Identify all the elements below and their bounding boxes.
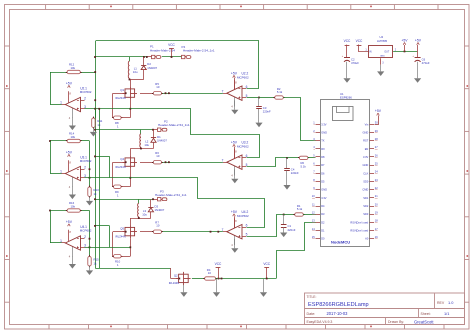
inductor L2 10u	[140, 130, 142, 134]
pin 26 3.3V	[370, 156, 375, 158]
svg-text:RSV(Don't use): RSV(Don't use)	[350, 220, 368, 224]
svg-text:GND: GND	[363, 130, 369, 134]
svg-text:470uF: 470uF	[351, 61, 359, 65]
svg-text:220nF: 220nF	[263, 110, 271, 114]
svg-text:10k: 10k	[71, 204, 76, 208]
ground below C6	[417, 62, 419, 78]
svg-text:220nF: 220nF	[291, 171, 299, 175]
svg-text:+5V: +5V	[231, 210, 238, 214]
ground below R11	[93, 127, 95, 131]
pin 2 GND	[316, 132, 321, 134]
op-amp U3.1 MCP602	[68, 160, 70, 171]
svg-text:GreatScott: GreatScott	[414, 319, 434, 324]
svg-text:+5V: +5V	[375, 109, 382, 113]
svg-text:6: 6	[246, 154, 248, 158]
svg-text:6: 6	[246, 85, 248, 89]
svg-text:1: 1	[60, 239, 62, 243]
svg-text:10: 10	[156, 85, 160, 89]
wire R4 to VCC and NodeMCU D2	[216, 278, 277, 280]
diode D1 1N4007	[153, 130, 155, 138]
title block	[305, 293, 465, 325]
pin 10 3.3V	[316, 197, 321, 199]
capacitor C4 220nF	[286, 158, 288, 168]
wire source node channel 2	[130, 169, 132, 187]
svg-text:1/1: 1/1	[444, 311, 449, 316]
svg-text:CMD: CMD	[362, 188, 368, 192]
svg-text:CLK: CLK	[363, 171, 368, 175]
diode D3 1N4007	[150, 199, 152, 207]
pin 19 SD3	[370, 214, 375, 216]
pin 12 D3	[316, 214, 321, 216]
resistor R0 5.1k	[287, 157, 299, 159]
svg-text:3.3V: 3.3V	[321, 122, 327, 126]
svg-text:RSV(Don't use): RSV(Don't use)	[350, 229, 368, 233]
svg-text:10u: 10u	[142, 212, 147, 216]
svg-text:GND: GND	[321, 130, 327, 134]
resistor R12 10k	[67, 70, 80, 73]
svg-text:D5: D5	[321, 179, 325, 183]
svg-text:7: 7	[222, 89, 224, 93]
resistor R7 10	[153, 230, 161, 233]
svg-text:IN: IN	[369, 51, 372, 53]
svg-text:VCC: VCC	[263, 262, 270, 266]
svg-text:GND: GND	[380, 56, 385, 58]
wire source node channel 3	[130, 238, 132, 256]
pin 23 SD0	[370, 181, 375, 183]
pin 5 D8	[316, 156, 321, 158]
ground below R15	[89, 266, 91, 271]
op-amp U4.1 MCP602	[68, 230, 70, 241]
svg-text:1N4007: 1N4007	[147, 66, 157, 70]
wire gate to R10 channel 3	[113, 231, 125, 233]
svg-text:10: 10	[156, 154, 160, 158]
ground below U4	[380, 65, 382, 72]
svg-text:D3: D3	[321, 212, 325, 216]
wire channel 1 feedback loop	[96, 41, 259, 89]
pin 18 RSV(Don't use)	[370, 222, 375, 224]
svg-text:5.1k: 5.1k	[301, 165, 307, 169]
svg-text:TITLE:: TITLE:	[307, 295, 317, 299]
wire drain node channel 1	[130, 79, 143, 81]
svg-text:2: 2	[84, 165, 86, 169]
pin 29 GND	[370, 132, 375, 134]
svg-text:IRLZ44N: IRLZ44N	[169, 281, 180, 285]
svg-text:MCP602: MCP602	[237, 145, 249, 149]
svg-text:GND: GND	[321, 188, 327, 192]
transistor Q1 IRLZ44N	[125, 89, 135, 97]
pin 13 D2	[316, 222, 321, 224]
svg-text:D2: D2	[321, 220, 325, 224]
module U1 ESP8266 NodeMCU	[321, 100, 370, 247]
wire channel 1 output header net	[95, 56, 147, 58]
ground below U4.2	[234, 239, 236, 248]
voltage regulator U4 LM7805	[369, 46, 393, 58]
header P1 Header-Male-2.54	[152, 55, 155, 58]
svg-text:Header-Male-2.54_1x1: Header-Male-2.54_1x1	[158, 123, 190, 127]
svg-text:MCP602: MCP602	[80, 229, 92, 233]
header P2 Header-Male-2.54_1x1	[158, 128, 161, 131]
ground below U3.2	[234, 169, 236, 178]
wire feedback bus channel 3	[89, 211, 91, 257]
svg-text:Q4: Q4	[120, 157, 124, 161]
svg-text:VCC: VCC	[356, 39, 363, 43]
svg-text:3: 3	[84, 244, 86, 248]
ground below U2.2	[234, 100, 236, 109]
svg-text:ESP8266: ESP8266	[340, 96, 352, 100]
wire drain node channel 3	[130, 218, 151, 220]
svg-text:1N4007: 1N4007	[157, 139, 167, 143]
ground below U2.1	[72, 118, 74, 126]
svg-text:1N4007: 1N4007	[155, 208, 165, 212]
svg-text:MCP602: MCP602	[80, 159, 92, 163]
resistor R1 5.1k	[284, 214, 295, 216]
svg-text:10: 10	[208, 271, 212, 275]
svg-text:7: 7	[222, 228, 224, 232]
transistor Q5 IRLZ44N	[125, 227, 135, 235]
svg-text:5: 5	[246, 232, 248, 236]
pin 30 Vin	[370, 124, 375, 126]
ground below U3.1	[72, 187, 74, 195]
pin 28 RST	[370, 140, 375, 142]
svg-text:220nF: 220nF	[288, 228, 296, 232]
svg-text:EasyEDA V4.9.3: EasyEDA V4.9.3	[307, 320, 333, 324]
wire R0 to NodeMCU	[308, 157, 316, 159]
svg-text:MCP602: MCP602	[237, 214, 249, 218]
ground below C2	[346, 62, 348, 78]
svg-text:10: 10	[156, 223, 160, 227]
pin 14 D1	[316, 230, 321, 232]
header P4 Header-Male-2.54_1x1	[182, 55, 185, 58]
svg-text:10u: 10u	[133, 70, 138, 74]
wire source node channel 1	[130, 100, 132, 118]
capacitor C3 220nF	[258, 98, 260, 107]
wire R2 to NodeMCU	[284, 98, 316, 141]
svg-text:5.1k: 5.1k	[277, 90, 283, 94]
ground symbol bottom right	[263, 279, 265, 292]
svg-text:ESP8266RGBLEDLamp: ESP8266RGBLEDLamp	[308, 302, 369, 308]
resistor R5 10	[153, 92, 161, 95]
svg-text:SD3: SD3	[363, 212, 369, 216]
inductor L3 10u	[138, 199, 140, 203]
svg-text:3: 3	[84, 105, 86, 109]
svg-text:470uF: 470uF	[422, 61, 430, 65]
svg-text:10k: 10k	[71, 135, 76, 139]
resistor R2 5.1k	[259, 97, 275, 99]
wire feedback bus channel 2	[89, 141, 91, 187]
wire gate to R8 channel 1	[113, 93, 125, 95]
svg-text:LM7805: LM7805	[377, 39, 388, 43]
svg-text:6: 6	[246, 224, 248, 228]
svg-text:+5V: +5V	[66, 220, 73, 224]
svg-text:3: 3	[84, 174, 86, 178]
svg-text:D0: D0	[321, 237, 325, 241]
resistor R13 1k	[88, 187, 91, 197]
svg-text:1.0: 1.0	[448, 300, 454, 305]
ground below C4	[286, 171, 288, 186]
svg-text:SD2: SD2	[363, 204, 369, 208]
pin 16 A0	[370, 238, 375, 240]
transistor Q2 IRLZ44N	[179, 274, 189, 282]
svg-text:Header-Male-2.54_1x1: Header-Male-2.54_1x1	[155, 193, 187, 197]
svg-text:+5V: +5V	[231, 140, 238, 144]
resistor R15 1k	[88, 256, 91, 266]
svg-text:3.3V: 3.3V	[321, 196, 327, 200]
svg-text:3.3V: 3.3V	[363, 155, 369, 159]
svg-text:RST: RST	[363, 139, 369, 143]
svg-text:10k: 10k	[71, 66, 76, 70]
svg-text:1: 1	[60, 101, 62, 105]
wire gate row channel 1	[140, 93, 153, 95]
svg-text:Q1: Q1	[120, 88, 124, 92]
pin 25 GND	[370, 165, 375, 167]
svg-text:2017-10-03: 2017-10-03	[327, 311, 349, 316]
pin 9 GND	[316, 189, 321, 191]
wire gate row channel 2	[140, 162, 153, 164]
svg-text:D7: D7	[321, 163, 325, 167]
svg-text:IRLZ44N: IRLZ44N	[115, 165, 126, 169]
svg-text:MCP602: MCP602	[237, 76, 249, 80]
svg-text:RX: RX	[321, 147, 325, 151]
wire sense connector	[95, 156, 110, 158]
wire main left vertical bus	[95, 41, 97, 268]
wire gate to R9 channel 2	[113, 162, 125, 164]
svg-text:D6: D6	[321, 171, 325, 175]
pin 3 TX	[316, 140, 321, 142]
svg-text:+5V: +5V	[415, 38, 422, 42]
junction dots on P1 net	[143, 56, 145, 58]
svg-text:Sheet:: Sheet:	[421, 312, 431, 316]
svg-text:Header-Male-2.54_1x1: Header-Male-2.54_1x1	[183, 49, 215, 53]
ground below Q2	[183, 285, 185, 292]
svg-text:D4: D4	[321, 204, 325, 208]
pin 1 3.3V	[316, 124, 321, 126]
resistor R6 10	[153, 161, 161, 164]
wire U2.2 pin5 to RC filter	[247, 97, 260, 99]
wire feedback bus channel 1	[95, 109, 97, 118]
pin 27 EN	[370, 148, 375, 150]
resistor R9 1	[114, 185, 122, 188]
svg-text:OUT: OUT	[384, 51, 389, 53]
wire U4 output to +5V	[393, 51, 418, 53]
wire channel 2 output header net	[95, 129, 153, 131]
wire drain node channel 2	[130, 148, 153, 150]
svg-text:Q2: Q2	[174, 273, 178, 277]
svg-text:IRLZ44N: IRLZ44N	[115, 234, 126, 238]
svg-text:2: 2	[84, 235, 86, 239]
resistor R11 1k	[92, 118, 95, 128]
svg-text:+5V: +5V	[66, 150, 73, 154]
pin 17 RSV(Don't use)	[370, 230, 375, 232]
wire P1 to VCC to P4	[162, 56, 182, 58]
svg-text:VCC: VCC	[344, 39, 351, 43]
svg-text:VCC: VCC	[215, 262, 222, 266]
resistor R16 10k	[67, 209, 80, 212]
inductor L1 10u	[129, 57, 131, 61]
pin 20 SD2	[370, 206, 375, 208]
ground below U4.1	[72, 256, 74, 264]
pin 8 D5	[316, 181, 321, 183]
svg-text:5.1k: 5.1k	[297, 207, 303, 211]
svg-text:Drawn By:: Drawn By:	[388, 320, 404, 324]
wire mid vertical bus 2	[99, 109, 101, 268]
wire channel 2 feedback loop	[131, 109, 260, 158]
svg-text:7: 7	[222, 158, 224, 162]
diode D2 1N4007	[143, 57, 145, 65]
op-amp U2.2 MCP602	[234, 80, 236, 91]
svg-text:+5V: +5V	[66, 81, 73, 85]
pin 15 D0	[316, 238, 321, 240]
svg-text:GND: GND	[363, 163, 369, 167]
header P3 Header-Male-2.54_1x1	[158, 198, 161, 201]
svg-text:Date:: Date:	[307, 312, 316, 316]
ground below C1	[283, 227, 285, 232]
svg-text:D8: D8	[321, 155, 325, 159]
ground below R13	[89, 196, 91, 201]
svg-text:SD1: SD1	[363, 196, 369, 200]
pin 11 D4	[316, 206, 321, 208]
pin 7 D6	[316, 173, 321, 175]
op-amp U3.2 MCP602	[234, 149, 236, 160]
capacitor C2 470uF	[344, 57, 350, 59]
svg-text:A0: A0	[365, 237, 369, 241]
svg-text:1: 1	[60, 170, 62, 174]
wire R1 to NodeMCU	[303, 214, 315, 216]
svg-text:2: 2	[84, 96, 86, 100]
pin 24 CLK	[370, 173, 375, 175]
op-amp U2.1 MCP602	[68, 91, 70, 102]
pin 4 RX	[316, 148, 321, 150]
svg-text:10u: 10u	[144, 143, 149, 147]
wire sense connector	[95, 225, 110, 227]
pin 22 CMD	[370, 189, 375, 191]
resistor R4 10	[192, 278, 205, 280]
svg-text:D1: D1	[321, 229, 325, 233]
capacitor C1 220nF	[283, 215, 285, 225]
svg-text:VCC: VCC	[168, 43, 175, 47]
transistor Q4 IRLZ44N	[125, 158, 135, 166]
wire channel 3 feedback loop	[131, 178, 265, 228]
wire U4.2 pin5 to RC filter	[247, 215, 284, 237]
wire bottom net to Q2 gate	[95, 268, 171, 270]
pin 6 D7	[316, 165, 321, 167]
svg-text:TX: TX	[321, 139, 325, 143]
wire U3.2 pin5 to RC filter	[247, 158, 287, 167]
svg-text:+5V: +5V	[401, 38, 408, 42]
svg-text:REV: REV	[437, 301, 445, 305]
svg-text:SD0: SD0	[363, 179, 369, 183]
svg-text:+5V: +5V	[231, 71, 238, 75]
wire gate row channel 3	[140, 231, 153, 233]
svg-text:MCP602: MCP602	[80, 90, 92, 94]
svg-text:EN: EN	[365, 147, 369, 151]
svg-text:IRLZ44N: IRLZ44N	[115, 96, 126, 100]
ground symbol bottom middle	[216, 279, 218, 292]
pin 21 SD1	[370, 197, 375, 199]
svg-text:NodeMCU: NodeMCU	[331, 240, 350, 245]
capacitor C6 470uF	[417, 51, 419, 57]
resistor R14 10k	[67, 139, 80, 142]
wire channel 3 output header net	[95, 199, 153, 201]
svg-text:Vin: Vin	[365, 122, 369, 126]
ground below C3	[258, 109, 260, 123]
resistor R8 1	[114, 116, 122, 119]
resistor R10 1	[114, 255, 122, 258]
svg-text:Q5: Q5	[120, 227, 124, 231]
wire to Q2 gate	[170, 268, 172, 279]
op-amp U4.2 MCP602	[234, 218, 236, 229]
